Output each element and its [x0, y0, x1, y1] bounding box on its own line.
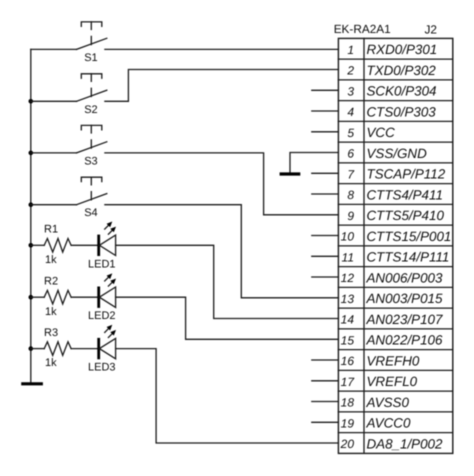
svg-text:TXD0/P302: TXD0/P302	[367, 63, 437, 78]
connector U/J2 outline EK-RA2A1	[338, 38, 452, 453]
wire LED3 to J2 pin 20	[116, 349, 339, 443]
wire J2 pin 17 stub	[312, 380, 339, 382]
wire LED1 to J2 pin 14	[116, 245, 339, 318]
svg-text:12: 12	[341, 271, 355, 285]
resistor R3 1k	[31, 327, 71, 369]
svg-text:8: 8	[347, 188, 354, 202]
svg-text:CTTS15/P001: CTTS15/P001	[367, 229, 452, 244]
wire LED2 to J2 pin 15	[116, 297, 339, 339]
wire J2 pin 8 stub	[312, 193, 339, 195]
svg-text:CTTS4/P411: CTTS4/P411	[367, 187, 443, 202]
svg-text:17: 17	[341, 375, 356, 389]
svg-text:10: 10	[341, 230, 355, 244]
wire J2 pin 11 stub	[312, 255, 339, 257]
wire J2 pin 6 to ground	[290, 153, 338, 173]
svg-text:LED2: LED2	[88, 310, 116, 322]
svg-text:2: 2	[346, 64, 354, 78]
wire J2 pin 4 stub	[312, 110, 339, 112]
ground (bottom of left rail)	[21, 382, 43, 385]
svg-text:3: 3	[347, 85, 354, 99]
LED LED2	[71, 273, 116, 322]
svg-text:CTTS14/P111: CTTS14/P111	[367, 250, 450, 265]
svg-text:S4: S4	[84, 207, 97, 219]
svg-text:1k: 1k	[45, 357, 57, 369]
wire S2 to J2 pin 2	[105, 70, 339, 102]
wire J2 pin 7 stub	[312, 172, 339, 174]
svg-text:14: 14	[341, 313, 355, 327]
node S2 junction	[29, 99, 34, 104]
svg-text:1: 1	[347, 43, 354, 57]
svg-text:RXD0/P301: RXD0/P301	[367, 42, 438, 57]
svg-text:AN023/P107: AN023/P107	[366, 312, 443, 327]
svg-text:1k: 1k	[45, 306, 57, 318]
svg-text:AN022/P106: AN022/P106	[366, 333, 443, 348]
wire J2 pin 10 stub	[312, 235, 339, 237]
svg-text:20: 20	[340, 437, 355, 451]
svg-text:AVCC0: AVCC0	[366, 416, 411, 431]
svg-text:16: 16	[341, 354, 355, 368]
svg-text:AN006/P003: AN006/P003	[366, 270, 443, 285]
wire S4 to J2 pin 13	[105, 205, 339, 298]
wire J2 pin 3 stub	[312, 89, 339, 91]
switch S2	[31, 74, 107, 116]
svg-text:18: 18	[341, 396, 355, 410]
svg-text:VSS/GND: VSS/GND	[367, 146, 428, 161]
svg-text:LED3: LED3	[88, 362, 116, 374]
svg-text:11: 11	[342, 251, 354, 265]
svg-text:S2: S2	[84, 104, 97, 116]
svg-text:15: 15	[341, 334, 355, 348]
svg-text:VCC: VCC	[367, 125, 396, 140]
svg-text:CTTS5/P410: CTTS5/P410	[367, 208, 445, 223]
svg-text:5: 5	[347, 126, 354, 140]
svg-text:TSCAP/P112: TSCAP/P112	[367, 167, 446, 182]
wire J2 pin 19 stub	[312, 421, 339, 423]
svg-text:EK-RA2A1: EK-RA2A1	[334, 22, 391, 36]
svg-text:DA8_1/P002: DA8_1/P002	[367, 436, 443, 451]
LED LED3	[71, 325, 116, 374]
svg-text:9: 9	[347, 209, 354, 223]
svg-text:6: 6	[347, 147, 354, 161]
node R1 junction	[29, 243, 34, 248]
node R2 junction	[29, 295, 34, 300]
svg-text:VREFL0: VREFL0	[367, 374, 418, 389]
wire S1 to J2 pin 1	[105, 48, 339, 50]
svg-text:R1: R1	[44, 224, 58, 236]
svg-text:13: 13	[341, 292, 355, 306]
svg-text:19: 19	[341, 417, 355, 431]
LED LED1	[71, 222, 116, 271]
resistor R2 1k	[31, 275, 71, 317]
switch S1	[31, 22, 107, 64]
wire J2 pin 12 stub	[312, 276, 339, 278]
node S3 junction	[29, 151, 34, 156]
svg-text:R2: R2	[44, 275, 58, 287]
svg-text:AN003/P015: AN003/P015	[366, 291, 443, 306]
svg-text:AVSS0: AVSS0	[366, 395, 410, 410]
svg-text:VREFH0: VREFH0	[367, 353, 420, 368]
svg-text:1k: 1k	[45, 254, 57, 266]
svg-text:J2: J2	[425, 23, 437, 37]
svg-text:SCK0/P304: SCK0/P304	[367, 84, 437, 99]
svg-text:S3: S3	[84, 155, 97, 167]
wire left rail (S1 contact down to ground)	[30, 49, 32, 382]
svg-text:LED1: LED1	[88, 258, 116, 270]
switch S3	[31, 125, 107, 167]
wire J2 pin 16 stub	[312, 359, 339, 361]
switch S4	[31, 177, 107, 219]
wire S3 to J2 pin 9	[105, 153, 339, 215]
svg-text:4: 4	[347, 105, 354, 119]
svg-text:CTS0/P303: CTS0/P303	[367, 104, 437, 119]
node R3 junction	[29, 346, 34, 351]
svg-text:S1: S1	[84, 52, 97, 64]
ground (pin 6 VSS/GND)	[280, 172, 301, 175]
resistor R1 1k	[31, 224, 71, 266]
wire J2 pin 18 stub	[312, 401, 339, 403]
wire J2 pin 5 stub	[312, 131, 339, 133]
svg-text:R3: R3	[44, 327, 58, 339]
node S4 junction	[29, 202, 34, 207]
